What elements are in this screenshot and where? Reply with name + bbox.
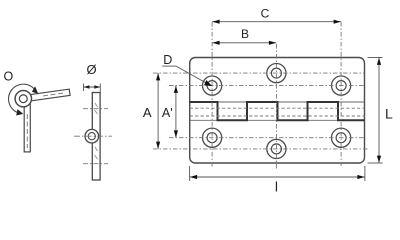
hinge pin hidden line upper (190, 107, 365, 109)
svg-text:O: O (4, 69, 14, 83)
vertical centerline left hole column (211, 22, 213, 168)
dimension B line (212, 41, 276, 45)
label A' (162, 106, 173, 120)
edge view: centerline knuckle (74, 135, 112, 137)
svg-text:L: L (385, 106, 393, 122)
vertical centerline middle hole column (275, 44, 277, 170)
label L (385, 106, 393, 122)
vertical centerline right hole column (340, 22, 342, 166)
horizontal centerline top corner hole row (169, 85, 365, 87)
label O (4, 69, 14, 83)
edge view: leaf strip (92, 93, 100, 181)
dimension C line (212, 20, 341, 24)
dimension l line (190, 175, 365, 179)
svg-text:B: B (241, 27, 249, 41)
edge view: centerline upper hole row (83, 108, 108, 110)
svg-text:D: D (163, 53, 172, 67)
knuckle joint castellated line (190, 102, 365, 120)
hole bottom-right (332, 128, 351, 147)
horizontal centerline top middle hole row (153, 72, 365, 74)
svg-text:A': A' (162, 106, 173, 120)
label l (275, 179, 278, 195)
edge view: zigzag break marks lower (95, 147, 98, 159)
horizontal centerline bottom corner hole row (169, 137, 365, 139)
label B (241, 27, 249, 41)
open hinge side view: knuckle pin hole (19, 95, 27, 103)
hole top-middle (267, 64, 286, 83)
svg-text:l: l (275, 179, 278, 195)
dimension diameter: extension lines (84, 84, 101, 93)
dimension L extension lines (368, 58, 383, 164)
opening angle arc O (9, 84, 39, 115)
hole bottom-middle (267, 139, 286, 158)
open hinge side view: upper leaf (23, 89, 70, 102)
dimension l extension lines (190, 166, 365, 181)
edge view: zigzag break marks upper (95, 103, 98, 114)
label diameter (86, 62, 96, 77)
hole top-right (332, 76, 351, 95)
horizontal centerline bottom middle hole row (153, 148, 368, 150)
dimension A' line (174, 86, 178, 138)
label C (261, 7, 270, 21)
hinge plate outline (190, 58, 365, 164)
open hinge side view: lower leaf (24, 98, 30, 152)
open hinge side view: knuckle outer circle (15, 91, 31, 107)
edge view: centerline lower hole row (83, 163, 108, 165)
svg-text:C: C (261, 7, 270, 21)
knuckle joint thin bottom line (190, 119, 365, 121)
knuckle joint thin top line (190, 101, 365, 103)
hole top-left outer (203, 76, 222, 95)
dimension A line (156, 73, 160, 149)
open hinge side view: lower leaf centerline (26, 114, 28, 148)
open hinge side view: upper leaf centerline (43, 93, 64, 96)
svg-text:Ø: Ø (86, 62, 96, 77)
dimension diameter: line with arrows (84, 85, 101, 89)
label A (143, 105, 152, 120)
hinge pin hidden line lower (190, 115, 365, 117)
label D (163, 53, 172, 67)
edge view: knuckle pin hole (88, 133, 95, 140)
dimension L line (377, 58, 381, 164)
leader line D (162, 66, 212, 86)
hole bottom-left (203, 128, 222, 147)
edge view: knuckle outer circle (85, 129, 99, 143)
svg-text:A: A (143, 105, 152, 120)
